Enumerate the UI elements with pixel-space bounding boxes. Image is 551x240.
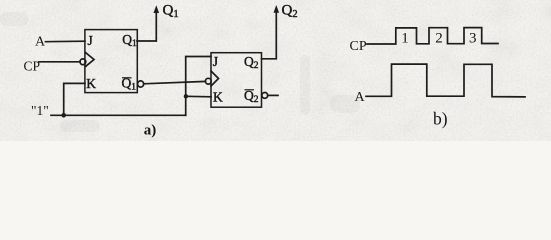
wire Q1 output to arrow — [137, 11, 156, 41]
svg-text:"1": "1" — [31, 103, 49, 118]
clock bubble U1 — [80, 59, 86, 65]
wire K1 input — [64, 83, 85, 115]
pin Q1bar — [122, 76, 137, 93]
svg-text:A: A — [35, 34, 46, 49]
bubble Q2bar output — [262, 93, 268, 99]
svg-text:CP: CP — [24, 59, 41, 74]
flip-flop U2 box — [211, 53, 262, 107]
bubble Q1bar output — [138, 81, 144, 87]
wire CP input — [39, 61, 80, 63]
svg-text:A: A — [355, 90, 366, 105]
clock edge triangle U1 — [86, 53, 95, 67]
flip-flop U1 box — [85, 30, 137, 93]
wire Q2bar stub — [268, 94, 278, 96]
wire A input — [46, 40, 85, 43]
arrowhead Q2 — [274, 5, 280, 13]
svg-text:J: J — [88, 33, 93, 48]
waveform CP — [367, 28, 498, 44]
pin Q2bar — [244, 88, 259, 105]
svg-text:J: J — [213, 54, 218, 69]
clock edge triangle U2 — [211, 71, 219, 86]
wire Q1bar to CP2 — [144, 81, 206, 83]
clock bubble U2 — [205, 78, 211, 84]
svg-text:b): b) — [433, 109, 448, 129]
waveform A — [366, 64, 525, 97]
faint scan noise — [0, 12, 360, 132]
svg-text:K: K — [86, 76, 96, 91]
svg-text:K: K — [213, 90, 223, 105]
svg-text:CP: CP — [350, 39, 367, 54]
wire branch to K2 — [186, 95, 211, 98]
svg-text:1: 1 — [401, 31, 409, 47]
wire "1" net horizontal — [51, 114, 186, 116]
svg-text:3: 3 — [469, 31, 477, 47]
svg-text:2: 2 — [435, 31, 443, 47]
junction dot K1/"1" — [61, 113, 66, 118]
wire Q2 output to arrow — [262, 11, 277, 59]
arrowhead Q1 — [154, 5, 160, 13]
junction dot "1"/K2 — [184, 94, 188, 98]
svg-text:a): a) — [144, 123, 157, 139]
wire "1" net to J2 — [186, 57, 211, 116]
